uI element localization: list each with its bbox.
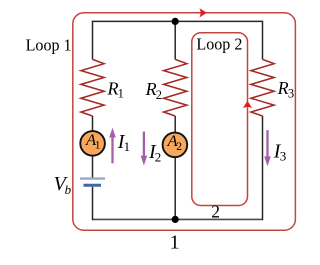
current arrow I3 [266, 130, 268, 157]
current arrow I2 [143, 132, 145, 157]
svg-text:1: 1 [124, 139, 131, 154]
svg-text:3: 3 [280, 149, 287, 164]
wire middle column upper [174, 21, 176, 59]
svg-text:Loop 1: Loop 1 [26, 35, 72, 54]
loop 1 direction arrow [199, 8, 206, 17]
svg-text:b: b [65, 182, 72, 197]
wire left column upper [92, 21, 94, 60]
svg-text:2: 2 [176, 141, 182, 153]
wire left column R1 to A1 [92, 116, 94, 132]
wire top [93, 20, 263, 22]
svg-text:Loop 2: Loop 2 [196, 35, 242, 54]
resistor R3 [251, 59, 274, 116]
battery Vb plate long [80, 177, 105, 179]
resistor R1 [81, 59, 104, 116]
wire left column A1 to battery [92, 155, 94, 177]
resistor R2 [164, 59, 187, 116]
battery Vb plate short [84, 184, 102, 187]
loop 2 red path [192, 33, 248, 206]
ammeter A2 [163, 133, 188, 158]
svg-text:1: 1 [118, 87, 124, 101]
svg-text:1: 1 [95, 140, 101, 152]
wire middle column A2 to bottom [174, 157, 176, 219]
wire right column upper [262, 21, 264, 60]
wire bottom [93, 218, 263, 220]
node top junction [172, 18, 179, 25]
svg-text:1: 1 [170, 232, 180, 254]
svg-text:2: 2 [155, 149, 162, 164]
current arrow I1 [111, 137, 113, 164]
loop 2 direction arrow [243, 101, 252, 108]
wire right column lower [262, 116, 264, 220]
node bottom junction [172, 216, 179, 223]
loop 1 red path [73, 13, 296, 230]
svg-text:R: R [277, 78, 289, 98]
svg-text:2: 2 [211, 202, 220, 222]
svg-text:2: 2 [156, 88, 162, 102]
wire middle column R2 to A2 [174, 116, 176, 134]
svg-text:3: 3 [288, 86, 294, 100]
wire left column battery to bottom [92, 187, 94, 220]
ammeter A1 [80, 131, 105, 156]
